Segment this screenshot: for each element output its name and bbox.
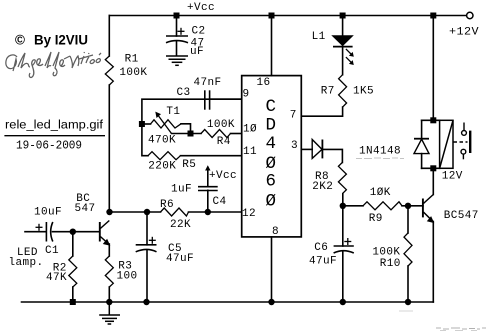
wire C2 top lead (176, 16, 178, 37)
wire relay branch (432, 16, 434, 121)
node pin16 (269, 13, 275, 19)
svg-text:1ØK: 1ØK (370, 187, 391, 199)
svg-text:uF: uF (190, 46, 204, 58)
C1 plus (36, 226, 43, 228)
svg-text:By I2VIU: By I2VIU (34, 33, 88, 48)
wire pin3 to diode (301, 148, 312, 150)
node relay top (430, 117, 436, 123)
rule under filename (4, 135, 105, 137)
wire pin16 (271, 16, 273, 76)
svg-text:470K: 470K (148, 135, 176, 147)
transistor Q2 BC547 (423, 195, 433, 222)
resistor R9 (363, 202, 402, 210)
svg-text:47uF: 47uF (166, 253, 194, 265)
svg-text:+Vcc: +Vcc (209, 170, 237, 182)
flyback diode (414, 139, 429, 154)
resistor R8 (338, 162, 346, 193)
svg-text:100K: 100K (372, 246, 400, 258)
wire R2 bottom lead (72, 287, 74, 302)
watermark small top (399, 310, 413, 312)
svg-text:220K: 220K (148, 161, 176, 173)
watermark bottom right (436, 328, 486, 331)
capacitor C4 (198, 187, 218, 191)
signature (6, 52, 101, 77)
svg-text:D: D (265, 116, 276, 136)
node rail R2 (70, 299, 76, 305)
svg-text:6: 6 (265, 172, 276, 192)
node rail C5 (143, 299, 149, 305)
node relay bottom (430, 165, 436, 171)
wire pin11 from R5 (181, 155, 242, 157)
svg-text:C6: C6 (314, 242, 328, 254)
wire C5 top lead (146, 212, 148, 245)
node rail C6 (340, 299, 346, 305)
svg-text:R1: R1 (125, 53, 139, 65)
watermark near 1N4148 (356, 157, 404, 160)
resistor R10 (404, 233, 412, 266)
node Vcc/C2 (174, 13, 180, 19)
svg-text:R4: R4 (217, 136, 231, 148)
wire C4 up lead (207, 168, 209, 187)
wire R10 top lead (407, 206, 409, 233)
LED L1 (333, 36, 354, 65)
wire R10 bottom lead (407, 266, 409, 302)
resistor R7 (339, 75, 347, 107)
wire Q2 emitter down (432, 222, 434, 303)
wire R3 bottom lead (108, 287, 110, 302)
+Vcc arrow near C4 (207, 167, 209, 175)
svg-text:1Ø: 1Ø (243, 124, 257, 136)
T1 wiper arrow (158, 115, 172, 133)
relay contacts (454, 123, 471, 160)
svg-text:22K: 22K (170, 219, 191, 231)
resistor R5 (148, 152, 181, 160)
svg-text:47K: 47K (46, 272, 67, 284)
wire C5 bottom lead (146, 250, 148, 302)
svg-text:12V: 12V (442, 171, 463, 183)
ground bottom (99, 302, 120, 324)
node +12V/relay (430, 13, 436, 19)
resistor R6 (161, 208, 189, 216)
svg-text:C3: C3 (176, 87, 190, 99)
svg-text:100: 100 (116, 271, 137, 283)
svg-text:C2: C2 (191, 26, 205, 38)
node LED top (340, 13, 346, 19)
svg-text:100K: 100K (207, 119, 235, 131)
svg-text:10uF: 10uF (34, 207, 62, 219)
wire R2 top lead (72, 232, 74, 256)
IC U1 CD4060 vertical text (265, 97, 276, 212)
wire R8 to junction (342, 194, 344, 206)
wire bottom rail (22, 301, 434, 303)
svg-text:R5: R5 (182, 159, 196, 171)
capacitor C1 (46, 222, 52, 242)
svg-text:L1: L1 (312, 31, 326, 43)
svg-text:R10: R10 (380, 258, 401, 270)
svg-text:+12V: +12V (449, 27, 479, 39)
svg-text:1uF: 1uF (171, 184, 192, 196)
wire C4 down lead (207, 190, 209, 212)
svg-text:Ø: Ø (265, 191, 276, 211)
svg-text:19-06-2009: 19-06-2009 (16, 138, 82, 152)
LED light arrows (346, 49, 352, 63)
node R8/R9/C6 (340, 203, 346, 209)
wire input to C1 (25, 231, 46, 233)
node C5/R6 (144, 209, 150, 215)
wire left bus middle (108, 85, 110, 212)
plus signs for polarized caps (36, 28, 352, 245)
wire pin8 (271, 237, 273, 302)
wire T1 right terminal (181, 124, 191, 134)
C2 plus (178, 30, 185, 32)
wire left bus top (108, 16, 110, 57)
wire R3 top lead from Q1 emitter (108, 244, 110, 256)
svg-text:T1: T1 (166, 106, 180, 118)
svg-text:C1: C1 (45, 245, 59, 257)
wire C6 top lead (342, 206, 344, 246)
C6 plus (344, 241, 351, 243)
resistor R2 (69, 256, 77, 287)
capacitor C2 (166, 36, 188, 43)
svg-text:2K2: 2K2 (312, 181, 333, 193)
wire R6 pin12 row (109, 211, 160, 213)
wire LED branch top (342, 16, 344, 36)
wire flyback diode bottom lead (421, 154, 423, 169)
svg-text:12: 12 (242, 208, 256, 220)
wire LED to R7 (342, 46, 344, 74)
svg-text:7: 7 (290, 110, 297, 122)
wire R9 row right (402, 205, 423, 207)
capacitor C6 (334, 246, 354, 253)
relay coil (440, 120, 453, 168)
svg-text:47nF: 47nF (193, 77, 221, 89)
svg-text:R6: R6 (160, 199, 174, 211)
trimmer T1 zigzag (151, 112, 182, 134)
wire top rail (109, 15, 466, 17)
node R9/R10/Q2 (405, 203, 411, 209)
svg-text:lamp.: lamp. (8, 257, 43, 269)
transistor Q1 BC547 (100, 221, 110, 245)
svg-text:©: © (15, 33, 25, 48)
svg-text:8: 8 (272, 226, 279, 238)
svg-text:547: 547 (74, 203, 95, 215)
capacitor C3 (205, 90, 210, 109)
C5 plus (149, 239, 156, 241)
node R1/Q1 collector (106, 209, 112, 215)
wire relay coil top (422, 119, 440, 121)
node rail pin8 (268, 299, 274, 305)
wire C2 bottom lead (176, 42, 178, 56)
wire T1 left (142, 123, 151, 125)
terminal +12V circle (467, 12, 473, 18)
capacitor C5 (136, 245, 157, 252)
svg-text:BC547: BC547 (444, 210, 479, 222)
svg-text:1K5: 1K5 (353, 86, 374, 98)
wire Q2 collector to relay (432, 168, 434, 194)
node T1 wiper (188, 131, 194, 137)
resistor R4 (201, 130, 231, 138)
node C1/R2 (70, 229, 76, 235)
svg-text:+Vcc: +Vcc (187, 2, 215, 14)
node C4/R6 (205, 209, 211, 215)
wire diode to R8 (322, 149, 342, 162)
svg-text:rele_led_lamp.gif: rele_led_lamp.gif (5, 118, 104, 132)
ground under C2 (166, 56, 188, 65)
svg-text:R7: R7 (321, 86, 335, 98)
wire pin10 row (172, 133, 202, 135)
resistor R3 (105, 256, 113, 287)
wire R9 row left (343, 205, 363, 207)
svg-text:9: 9 (242, 89, 249, 101)
svg-text:100K: 100K (119, 67, 147, 79)
wire C3 right (210, 98, 242, 100)
svg-text:3: 3 (291, 140, 298, 152)
wire C1 to base (53, 231, 100, 233)
node rail R10 (405, 299, 411, 305)
node T1 left (139, 121, 145, 127)
wire flyback diode top lead (421, 120, 423, 138)
IC U1 CD4060 box (242, 76, 302, 237)
svg-text:16: 16 (256, 77, 270, 89)
svg-text:C: C (265, 97, 276, 117)
wire relay coil bottom (422, 167, 440, 169)
wire C6 bottom lead (342, 252, 344, 303)
svg-text:47uF: 47uF (309, 256, 337, 268)
wire R7 to pin7 (301, 107, 342, 116)
svg-text:R9: R9 (369, 213, 383, 225)
diode D1 1N4148 (312, 140, 322, 159)
wire R4 to pin10 (231, 133, 242, 135)
svg-text:1N4148: 1N4148 (359, 146, 401, 158)
resistor R1 (105, 56, 113, 85)
svg-text:11: 11 (243, 146, 257, 158)
node rail ground (106, 299, 112, 305)
svg-text:C4: C4 (212, 196, 226, 208)
svg-text:4: 4 (265, 134, 276, 154)
wire pin9 row (142, 99, 242, 156)
